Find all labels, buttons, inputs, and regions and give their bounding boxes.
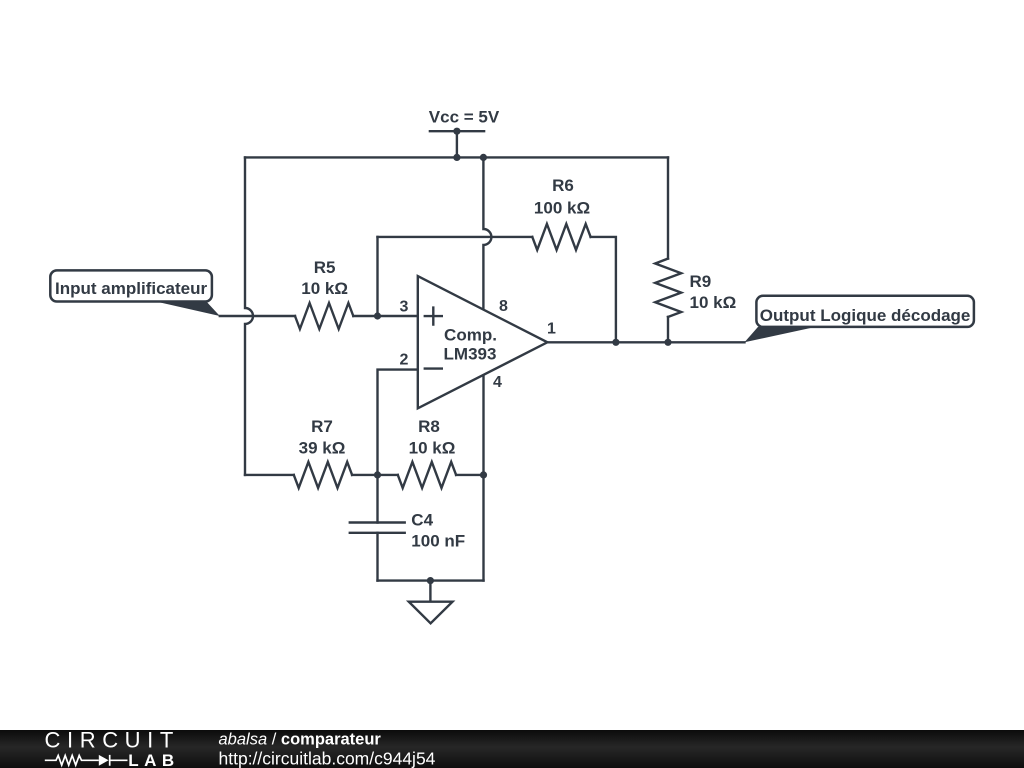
- wire pin4 drop: [482, 375, 484, 581]
- svg-text:100 kΩ: 100 kΩ: [534, 198, 590, 217]
- flag Input amplificateur tail: [147, 300, 220, 317]
- wire input left: [220, 315, 295, 317]
- op-amp plus symbol: [425, 308, 442, 325]
- junction dot pin8 on rail: [480, 154, 487, 161]
- junction dot Vcc bar: [453, 128, 460, 135]
- svg-text:R6: R6: [552, 176, 574, 195]
- svg-text:R7: R7: [311, 417, 333, 436]
- svg-text:Output Logique décodage: Output Logique décodage: [760, 306, 971, 325]
- wire below C4: [376, 533, 378, 581]
- junction dot R8 pin4: [480, 471, 487, 478]
- svg-text:LM393: LM393: [444, 345, 497, 364]
- svg-text:http://circuitlab.com/c944j54: http://circuitlab.com/c944j54: [219, 749, 436, 768]
- resistor R9: [655, 259, 681, 317]
- power Vcc bar: [430, 130, 484, 132]
- svg-text:8: 8: [499, 298, 508, 315]
- resistor R8: [398, 462, 456, 488]
- svg-text:100 nF: 100 nF: [411, 531, 465, 550]
- wire R7 left lead: [245, 474, 294, 476]
- resistor R5: [295, 303, 353, 329]
- wire R9 bottom lead: [667, 317, 669, 342]
- footer bar: [0, 730, 1024, 768]
- svg-text:10 kΩ: 10 kΩ: [301, 279, 348, 298]
- svg-text:CIRCUIT: CIRCUIT: [45, 727, 180, 752]
- svg-text:3: 3: [400, 299, 409, 316]
- wire R9 top lead: [667, 157, 669, 258]
- wire R8 right lead: [456, 474, 483, 476]
- wire pin2: [378, 370, 418, 523]
- svg-text:R9: R9: [690, 272, 712, 291]
- svg-text:R8: R8: [418, 417, 440, 436]
- svg-text:10 kΩ: 10 kΩ: [409, 439, 456, 458]
- op-amp minus symbol: [425, 367, 442, 369]
- wire feedback vertical: [376, 237, 378, 316]
- wire feedback horizontal: [378, 236, 533, 238]
- svg-text:C4: C4: [411, 511, 433, 530]
- junction dot R7 R8: [374, 471, 381, 478]
- wire output: [547, 341, 744, 343]
- junction dot Vcc on rail: [453, 154, 460, 161]
- flag Output Logique decodage box: [756, 296, 974, 327]
- svg-text:2: 2: [400, 351, 409, 368]
- svg-text:Comp.: Comp.: [444, 326, 497, 345]
- ground symbol: [409, 602, 453, 624]
- svg-text:R5: R5: [314, 258, 336, 277]
- wire R6 right lead down to output: [591, 237, 616, 342]
- wire R7 to junction: [352, 474, 398, 476]
- resistor R6: [532, 224, 590, 250]
- svg-text:4: 4: [493, 374, 502, 391]
- capacitor C4: [350, 523, 405, 533]
- wire Vcc stub: [456, 131, 458, 157]
- svg-text:1: 1: [547, 321, 556, 338]
- svg-text:LAB: LAB: [128, 751, 179, 768]
- svg-text:Vcc = 5V: Vcc = 5V: [429, 108, 500, 127]
- flag Input amplificateur box: [50, 270, 212, 301]
- svg-text:10 kΩ: 10 kΩ: [690, 293, 737, 312]
- wire ground stub: [429, 581, 431, 602]
- resistor R7: [294, 462, 352, 488]
- wire pin8 drop (with hop over feedback wire): [483, 157, 491, 309]
- junction dot pin3 node: [374, 312, 381, 319]
- junction dot R9 output: [664, 339, 671, 346]
- flag Output Logique decodage tail: [745, 327, 816, 342]
- footer logo resistor-diode squiggle: [45, 755, 128, 766]
- wire top rail: [245, 156, 668, 158]
- op-amp U1 LM393: [418, 276, 548, 408]
- svg-text:Input amplificateur: Input amplificateur: [55, 279, 207, 298]
- wire bottom rail: [378, 579, 484, 581]
- wire left rail (with hop over input wire): [245, 157, 253, 475]
- svg-text:abalsa / comparateur: abalsa / comparateur: [219, 731, 382, 749]
- junction dot R6 output: [612, 339, 619, 346]
- junction dot ground: [427, 577, 434, 584]
- wire R5 to opamp: [353, 315, 418, 317]
- svg-text:39 kΩ: 39 kΩ: [299, 439, 346, 458]
